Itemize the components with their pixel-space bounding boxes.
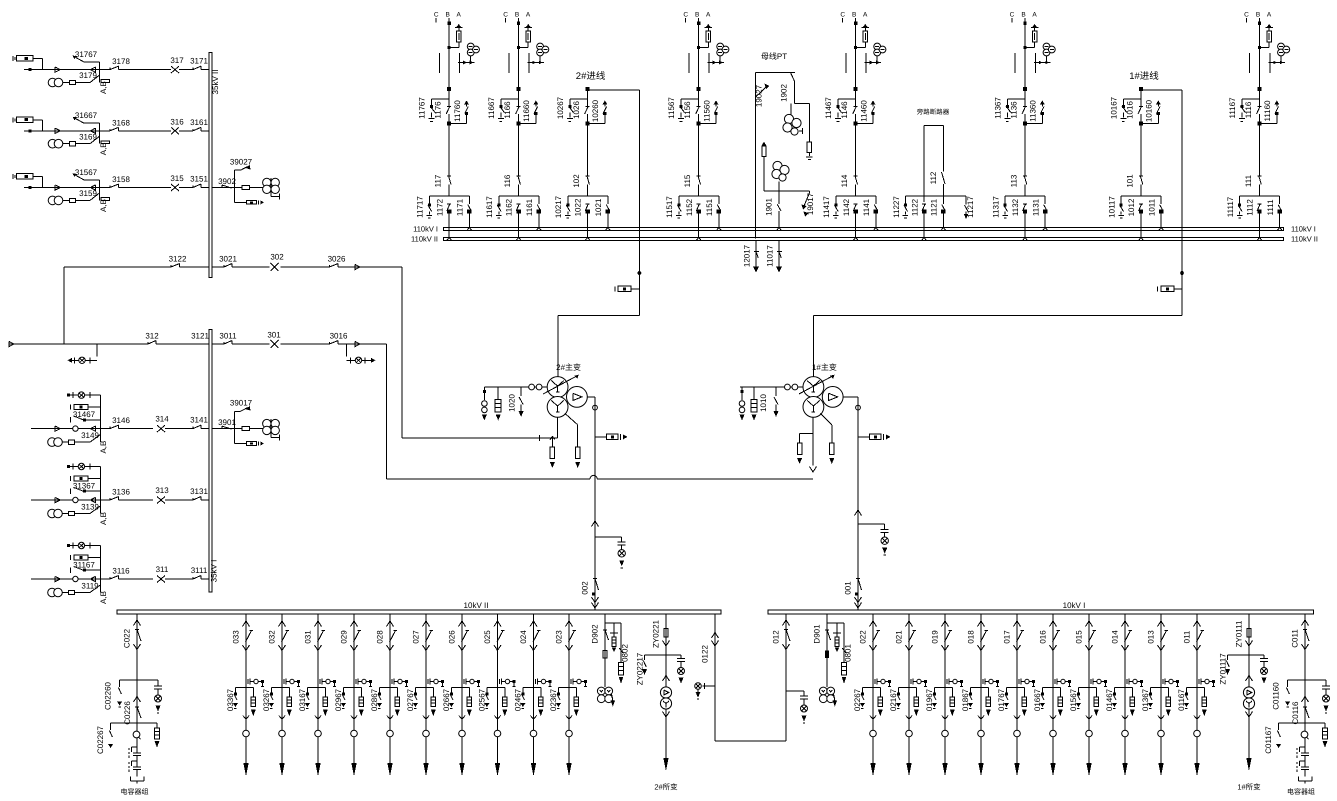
breaker 313 xyxy=(155,486,169,504)
svg-text:1122: 1122 xyxy=(911,198,920,216)
earthing switch 10167 xyxy=(1110,96,1142,121)
svg-text:ZY0111: ZY0111 xyxy=(1235,620,1244,647)
svg-text:027: 027 xyxy=(412,630,421,644)
capacitor lamp branch C022 xyxy=(137,680,162,713)
bus earthing switch 11017 xyxy=(765,241,782,273)
svg-text:3151: 3151 xyxy=(190,175,208,184)
svg-text:A,B: A,B xyxy=(99,512,108,525)
cable pothead bay 314 xyxy=(71,404,101,409)
earthing switch 11460 xyxy=(854,100,876,126)
svg-text:0122: 0122 xyxy=(701,645,710,663)
earthing switch 02367 xyxy=(549,687,569,711)
feeder 023 CT tap xyxy=(571,679,587,687)
svg-text:1016: 1016 xyxy=(1125,101,1134,119)
feeder 019 lower contacts xyxy=(942,716,949,777)
bypass bay frame xyxy=(922,126,944,241)
1# main transformer 110kV feed conductor xyxy=(813,241,1184,377)
earthing switch 01367 xyxy=(1141,687,1161,711)
incoming line bay 102 (2#进线) xyxy=(576,71,640,196)
svg-text:11167: 11167 xyxy=(1228,97,1237,119)
earthing switch 02967 xyxy=(334,687,354,711)
svg-text:11467: 11467 xyxy=(824,97,833,119)
earthing switch ZY01117 xyxy=(1219,653,1250,685)
10kV feeder bay 016 xyxy=(1039,614,1061,763)
svg-text:A: A xyxy=(526,12,531,19)
earthing switch 11417 xyxy=(822,196,839,218)
feeder 025 CT tap xyxy=(499,679,515,687)
svg-text:1011: 1011 xyxy=(1147,198,1156,216)
earthing switch C01167b xyxy=(1264,723,1305,754)
svg-text:1172: 1172 xyxy=(435,198,444,216)
bus disconnector 1162 xyxy=(505,198,521,238)
line PT bay 117 xyxy=(458,43,479,64)
fuse branch 0802 xyxy=(605,623,630,684)
svg-text:B: B xyxy=(1021,12,1025,19)
junction node 102 xyxy=(586,87,590,91)
svg-text:1141: 1141 xyxy=(862,198,871,216)
svg-text:B: B xyxy=(446,12,450,19)
breaker 317 xyxy=(170,56,184,73)
svg-text:11567: 11567 xyxy=(667,97,676,119)
PT bay 3901 lower fuse branch xyxy=(235,429,264,446)
bay 314 riser xyxy=(99,395,101,429)
earthing switch 11717 xyxy=(416,196,433,218)
arrester below row 301 right xyxy=(346,344,375,363)
breaker 314 xyxy=(155,415,169,433)
isolating marks bay 114 xyxy=(846,53,866,73)
svg-text:11460: 11460 xyxy=(859,100,868,122)
earthing switch 11160 xyxy=(1258,100,1280,125)
svg-text:电容器组: 电容器组 xyxy=(121,788,149,796)
junction node 115 xyxy=(697,87,701,91)
feeder 031 arrester xyxy=(318,687,328,716)
svg-text:1166: 1166 xyxy=(503,101,512,119)
svg-text:31767: 31767 xyxy=(75,50,98,59)
svg-text:1012: 1012 xyxy=(1127,198,1136,216)
svg-text:1162: 1162 xyxy=(505,198,514,216)
bay 313 riser xyxy=(99,467,101,501)
earthing switch C02260 xyxy=(104,680,138,710)
transformer LV breaker 001 xyxy=(844,510,889,608)
disconnector 1146 xyxy=(840,101,858,119)
svg-text:3149: 3149 xyxy=(81,431,99,440)
disconnector C016 wait xyxy=(1291,697,1309,725)
bus disconnector 1121 xyxy=(930,196,946,230)
svg-text:3021: 3021 xyxy=(219,255,237,264)
svg-text:11717: 11717 xyxy=(416,196,425,218)
earthing switch 31567 xyxy=(73,168,100,188)
bus disconnector 3161 xyxy=(190,118,208,131)
1#主变 arrester group xyxy=(739,387,778,421)
svg-text:02467: 02467 xyxy=(513,688,522,711)
PT bay lower tie xyxy=(764,190,809,192)
10kV feeder bay 029 xyxy=(340,614,362,763)
35kV feeder 311 main line xyxy=(31,576,209,581)
35kV feeder bay 315 cable box xyxy=(13,174,42,188)
line 111 main conductor xyxy=(1258,18,1261,196)
110kV bus II xyxy=(444,237,1284,240)
feeder 014 lower contacts xyxy=(1122,716,1129,777)
110kV line bay 116: phase labels C B A xyxy=(503,12,531,23)
svg-text:C: C xyxy=(434,12,439,19)
bus disconnector 1111 xyxy=(1266,196,1282,228)
svg-text:313: 313 xyxy=(155,486,169,495)
svg-text:1132: 1132 xyxy=(1011,198,1020,216)
svg-text:3171: 3171 xyxy=(190,57,208,66)
svg-text:C01160: C01160 xyxy=(1272,682,1281,710)
svg-text:3139: 3139 xyxy=(81,503,99,512)
svg-text:302: 302 xyxy=(270,253,284,262)
earthing switch 02567 xyxy=(477,687,497,711)
svg-text:314: 314 xyxy=(155,415,169,424)
svg-text:1151: 1151 xyxy=(705,198,714,216)
isolating marks bay 116 xyxy=(509,53,529,73)
junction node 113 xyxy=(1023,87,1027,91)
1# transformer 35kV lead and neutral arresters xyxy=(797,413,834,472)
svg-text:A: A xyxy=(863,12,868,19)
svg-text:02367: 02367 xyxy=(549,688,558,711)
surge arrester bay 111 xyxy=(1258,24,1273,49)
feeder 014 arrester xyxy=(1125,687,1135,716)
earthing switch 01567 xyxy=(1069,687,1089,711)
10kV feeder bay 031 xyxy=(304,614,326,763)
capacitor bay C011 xyxy=(1291,614,1310,748)
svg-text:1176: 1176 xyxy=(434,101,443,119)
feeder 032 arrester xyxy=(282,687,292,716)
earthing transformer bay D901 xyxy=(813,614,831,687)
breaker 315 xyxy=(170,174,184,191)
main transformer 2#主变 xyxy=(543,363,587,417)
svg-text:115: 115 xyxy=(683,174,692,187)
earthing switch 01467 xyxy=(1105,687,1125,711)
svg-text:0801: 0801 xyxy=(844,644,853,662)
svg-text:ZY01117: ZY01117 xyxy=(1219,653,1228,685)
2#主变 LV wire and CTs xyxy=(484,384,547,390)
bus connection dots bay 113 xyxy=(1023,227,1048,240)
feeder PT 3169 xyxy=(48,131,109,155)
feeder PT 3159 xyxy=(48,188,109,212)
2#主变 arrester group xyxy=(482,387,524,421)
earthing switch 01667 xyxy=(1033,687,1053,711)
svg-text:31667: 31667 xyxy=(75,111,98,120)
disconnector C026 wait xyxy=(123,697,141,725)
svg-text:110kV I: 110kV I xyxy=(413,224,438,233)
svg-text:1#主变: 1#主变 xyxy=(812,363,837,372)
svg-text:03167: 03167 xyxy=(298,688,307,711)
svg-text:3026: 3026 xyxy=(328,255,346,264)
isolating marks bay 115 xyxy=(689,53,709,73)
bus disconnector 1131 xyxy=(1031,196,1047,228)
capacitor lamp branch C011 xyxy=(1305,680,1330,713)
feeder 013 arrester xyxy=(1161,687,1171,716)
bus disconnector 1132 xyxy=(1011,198,1027,238)
earthing switch 31667 xyxy=(73,111,100,131)
PT bay 3902 lower fuse branch xyxy=(235,188,264,205)
110kV bus I xyxy=(444,227,1284,230)
svg-text:1021: 1021 xyxy=(594,198,603,216)
svg-text:110kV II: 110kV II xyxy=(1291,234,1318,243)
110kV line bay 114: phase labels C B A xyxy=(840,12,868,23)
svg-text:3158: 3158 xyxy=(112,175,130,184)
bus tie breaker 012 xyxy=(715,614,790,741)
svg-text:3146: 3146 xyxy=(112,416,130,425)
svg-text:31567: 31567 xyxy=(75,168,98,177)
earthing switch 11360 xyxy=(1023,100,1045,126)
svg-text:C: C xyxy=(1244,12,1249,19)
35kV I wire to 1# transformer xyxy=(386,344,388,479)
capacitor bank C022 xyxy=(129,731,144,783)
selector junction 111 xyxy=(1240,195,1280,197)
bus disconnector 1112 xyxy=(1246,199,1262,239)
svg-text:315: 315 xyxy=(170,174,184,183)
svg-text:C0116: C0116 xyxy=(1291,701,1300,725)
110kV line bay 117: phase labels C B A xyxy=(434,12,462,23)
svg-text:1#进线: 1#进线 xyxy=(1129,71,1159,82)
svg-text:02867: 02867 xyxy=(370,688,379,711)
svg-text:11660: 11660 xyxy=(522,100,531,122)
bus tie disconnector 0122 xyxy=(701,614,719,741)
10kV feeder bay 017 xyxy=(1003,614,1025,763)
svg-text:11760: 11760 xyxy=(453,100,462,122)
feeder 021 CT tap xyxy=(911,679,927,687)
svg-text:3122: 3122 xyxy=(169,255,187,264)
junction node 116 xyxy=(517,87,521,91)
PT fuse 3902 xyxy=(242,185,250,189)
svg-text:39027: 39027 xyxy=(230,158,253,167)
10kV bus II xyxy=(117,610,721,614)
svg-text:1131: 1131 xyxy=(1031,198,1040,216)
svg-text:025: 025 xyxy=(483,630,492,644)
disconnector 1902 xyxy=(780,73,810,104)
junction node 114 xyxy=(854,87,858,91)
feeder PT 3149 xyxy=(48,429,108,454)
svg-text:B: B xyxy=(515,12,519,19)
svg-text:3121: 3121 xyxy=(191,332,209,341)
10kV feeder bay 025 xyxy=(483,614,505,763)
svg-text:3179: 3179 xyxy=(79,71,97,80)
bus disconnector 1022 xyxy=(574,198,590,238)
cable pothead bay 313 xyxy=(71,476,101,481)
earthing switch 10160 xyxy=(1139,99,1161,125)
svg-text:3119: 3119 xyxy=(81,582,99,591)
svg-text:1026: 1026 xyxy=(572,101,581,119)
svg-text:C02260: C02260 xyxy=(104,681,113,710)
svg-text:母线PT: 母线PT xyxy=(761,52,787,61)
svg-text:02967: 02967 xyxy=(334,688,343,711)
earthing switch 11467 xyxy=(824,97,856,122)
svg-text:02567: 02567 xyxy=(477,688,486,711)
feeder 033 lower contacts xyxy=(243,716,250,777)
earthing switch 02167 xyxy=(889,687,909,711)
10kV feeder bay 018 xyxy=(967,614,989,763)
svg-text:110kV II: 110kV II xyxy=(411,234,438,243)
2# transformer 35kV lead and neutral arresters xyxy=(540,413,581,468)
svg-text:A,B: A,B xyxy=(99,199,108,212)
line PT bay 114 xyxy=(865,43,886,64)
svg-text:D902: D902 xyxy=(591,624,600,644)
svg-text:1142: 1142 xyxy=(842,198,851,216)
feeder PT 3179 xyxy=(48,70,109,94)
svg-text:1146: 1146 xyxy=(840,101,849,119)
feeder 027 CT tap xyxy=(428,679,444,687)
arrester on PT bay xyxy=(806,104,812,160)
disconnector 1136 xyxy=(1009,101,1027,119)
svg-text:2#所变: 2#所变 xyxy=(654,783,678,792)
line 117 main conductor xyxy=(448,18,451,196)
earthing switch C02267b xyxy=(96,723,137,754)
svg-text:028: 028 xyxy=(376,630,385,644)
svg-text:A,B: A,B xyxy=(99,441,108,454)
feeder 031 CT tap xyxy=(320,679,336,687)
isolating marks bay 117 xyxy=(439,53,459,73)
breaker 115 xyxy=(683,174,701,187)
svg-text:C01167: C01167 xyxy=(1264,726,1273,754)
feeder 032 CT tap xyxy=(284,679,300,687)
svg-text:11367: 11367 xyxy=(994,97,1003,119)
svg-text:B: B xyxy=(1256,12,1260,19)
surge arrester bay 114 xyxy=(854,24,869,49)
svg-text:026: 026 xyxy=(448,630,457,644)
feeder 029 lower contacts xyxy=(351,716,358,777)
svg-text:C0226: C0226 xyxy=(123,701,132,725)
breaker 114 xyxy=(840,174,858,187)
earthing switch 01167 xyxy=(1177,687,1197,711)
svg-text:018: 018 xyxy=(967,630,976,644)
PT winding 3902 xyxy=(263,178,280,199)
35kV section tie row 301 xyxy=(9,331,387,349)
earthing switch 02467 xyxy=(513,687,533,711)
earthing switch 11667 xyxy=(487,97,518,122)
35kV PT bay 3901 xyxy=(212,418,263,429)
35kV feeder 317 main line xyxy=(24,67,209,72)
svg-text:01167: 01167 xyxy=(1177,689,1186,711)
feeder 011 arrester xyxy=(1197,687,1207,716)
earthing switch 11167 xyxy=(1228,97,1260,122)
bus disconnector 3131 xyxy=(190,487,208,500)
svg-text:01867: 01867 xyxy=(961,688,970,711)
svg-text:117: 117 xyxy=(434,174,443,187)
bus PT fuse xyxy=(762,142,767,192)
earthing switch 11217 xyxy=(943,196,974,219)
svg-text:1116: 1116 xyxy=(1244,101,1253,118)
feeder 024 CT tap xyxy=(535,679,551,687)
earthing switch 11227 xyxy=(892,196,908,218)
bus disconnector 3141 xyxy=(190,416,208,429)
svg-text:1#所变: 1#所变 xyxy=(1237,783,1261,792)
svg-text:10117: 10117 xyxy=(1107,196,1116,218)
surge arrester bay 116 xyxy=(517,24,532,49)
10kV feeder bay 013 xyxy=(1147,614,1169,763)
feeder 029 CT tap xyxy=(356,679,372,687)
svg-text:10217: 10217 xyxy=(554,195,563,218)
svg-text:11217: 11217 xyxy=(966,196,975,218)
station transformer winding ZY0221 xyxy=(660,676,671,772)
feeder 011 lower contacts xyxy=(1194,716,1201,777)
earthing switch 02767 xyxy=(406,687,426,711)
earthing switch 01767 xyxy=(997,687,1017,711)
surge arrester bay 117 xyxy=(448,24,463,49)
disconnector 1156 xyxy=(683,101,701,119)
bus disconnector 1161 xyxy=(525,196,541,228)
110kV bus PT bay frame xyxy=(756,52,795,238)
svg-text:31467: 31467 xyxy=(73,410,96,419)
svg-text:C: C xyxy=(1010,12,1015,19)
1#主变 LV wire and CTs xyxy=(740,384,803,390)
svg-text:3136: 3136 xyxy=(112,488,130,497)
feeder 022 arrester xyxy=(873,687,883,716)
bus PT winding cluster 1 xyxy=(783,104,803,135)
earthing switch 31367 xyxy=(71,482,101,495)
svg-text:3016: 3016 xyxy=(330,332,348,341)
feeder 015 lower contacts xyxy=(1086,716,1093,777)
svg-text:024: 024 xyxy=(519,630,528,644)
arrester below row 301 left xyxy=(68,344,98,363)
110kV line bay 115: phase labels C B A xyxy=(683,12,711,23)
selector junction 115 xyxy=(679,195,719,197)
capacitor lamp branch ZY0221 xyxy=(666,655,685,684)
line PT bay 111 xyxy=(1269,43,1290,64)
earthing switch 11617 xyxy=(485,196,502,218)
feeder 019 arrester xyxy=(945,687,955,716)
svg-text:10kV I: 10kV I xyxy=(1063,601,1086,610)
earthing switch 03367 xyxy=(226,687,246,711)
feeder 025 lower contacts xyxy=(494,716,501,777)
surge arrester bay 115 xyxy=(697,24,712,49)
line 114 main conductor xyxy=(854,18,857,196)
feeder 013 CT tap xyxy=(1163,679,1179,687)
svg-text:029: 029 xyxy=(340,630,349,644)
35kV II wire to 2# transformer xyxy=(401,267,403,438)
svg-text:A,B: A,B xyxy=(99,81,108,94)
earthing switch 02867 xyxy=(370,687,390,711)
breaker 117 xyxy=(434,174,452,187)
35kV feeder 313 main line xyxy=(31,497,209,502)
svg-text:016: 016 xyxy=(1039,630,1048,644)
bypass breaker 112 xyxy=(929,126,945,197)
svg-text:1161: 1161 xyxy=(525,198,534,216)
capacitor bay C022 xyxy=(123,614,142,748)
svg-text:113: 113 xyxy=(1009,174,1018,187)
svg-text:A,B: A,B xyxy=(99,591,108,604)
svg-text:2#进线: 2#进线 xyxy=(576,71,606,82)
svg-text:111: 111 xyxy=(1244,174,1253,187)
110kV bus labels right xyxy=(1291,224,1318,243)
svg-text:19017: 19017 xyxy=(806,192,815,215)
capacitor bank C011 xyxy=(1297,731,1312,783)
earthing switch 10217 xyxy=(554,195,571,218)
fuse branch C022 xyxy=(137,723,160,748)
svg-text:A: A xyxy=(1032,12,1037,19)
surge arrester bay 113 xyxy=(1024,24,1039,49)
selector junction 102 xyxy=(568,195,608,197)
feeder 018 CT tap xyxy=(983,679,999,687)
incoming bay 102 frame conductor to transformer xyxy=(585,90,639,241)
feeder 021 lower contacts xyxy=(906,716,913,777)
svg-text:1902: 1902 xyxy=(780,84,789,102)
svg-text:017: 017 xyxy=(1003,630,1012,644)
svg-text:03367: 03367 xyxy=(226,688,235,711)
svg-text:022: 022 xyxy=(859,630,868,644)
10kV feeder bay 014 xyxy=(1111,614,1133,763)
earthing switch 11760 xyxy=(447,100,469,126)
35kV section tie vertical xyxy=(63,267,65,344)
earthing switch 11567 xyxy=(667,97,699,122)
2# transformer 10kV lead xyxy=(587,397,627,610)
svg-text:01567: 01567 xyxy=(1069,688,1078,711)
10kV feeder bay 032 xyxy=(268,614,290,763)
line PT bay 115 xyxy=(708,43,729,64)
svg-text:3901: 3901 xyxy=(218,418,236,427)
